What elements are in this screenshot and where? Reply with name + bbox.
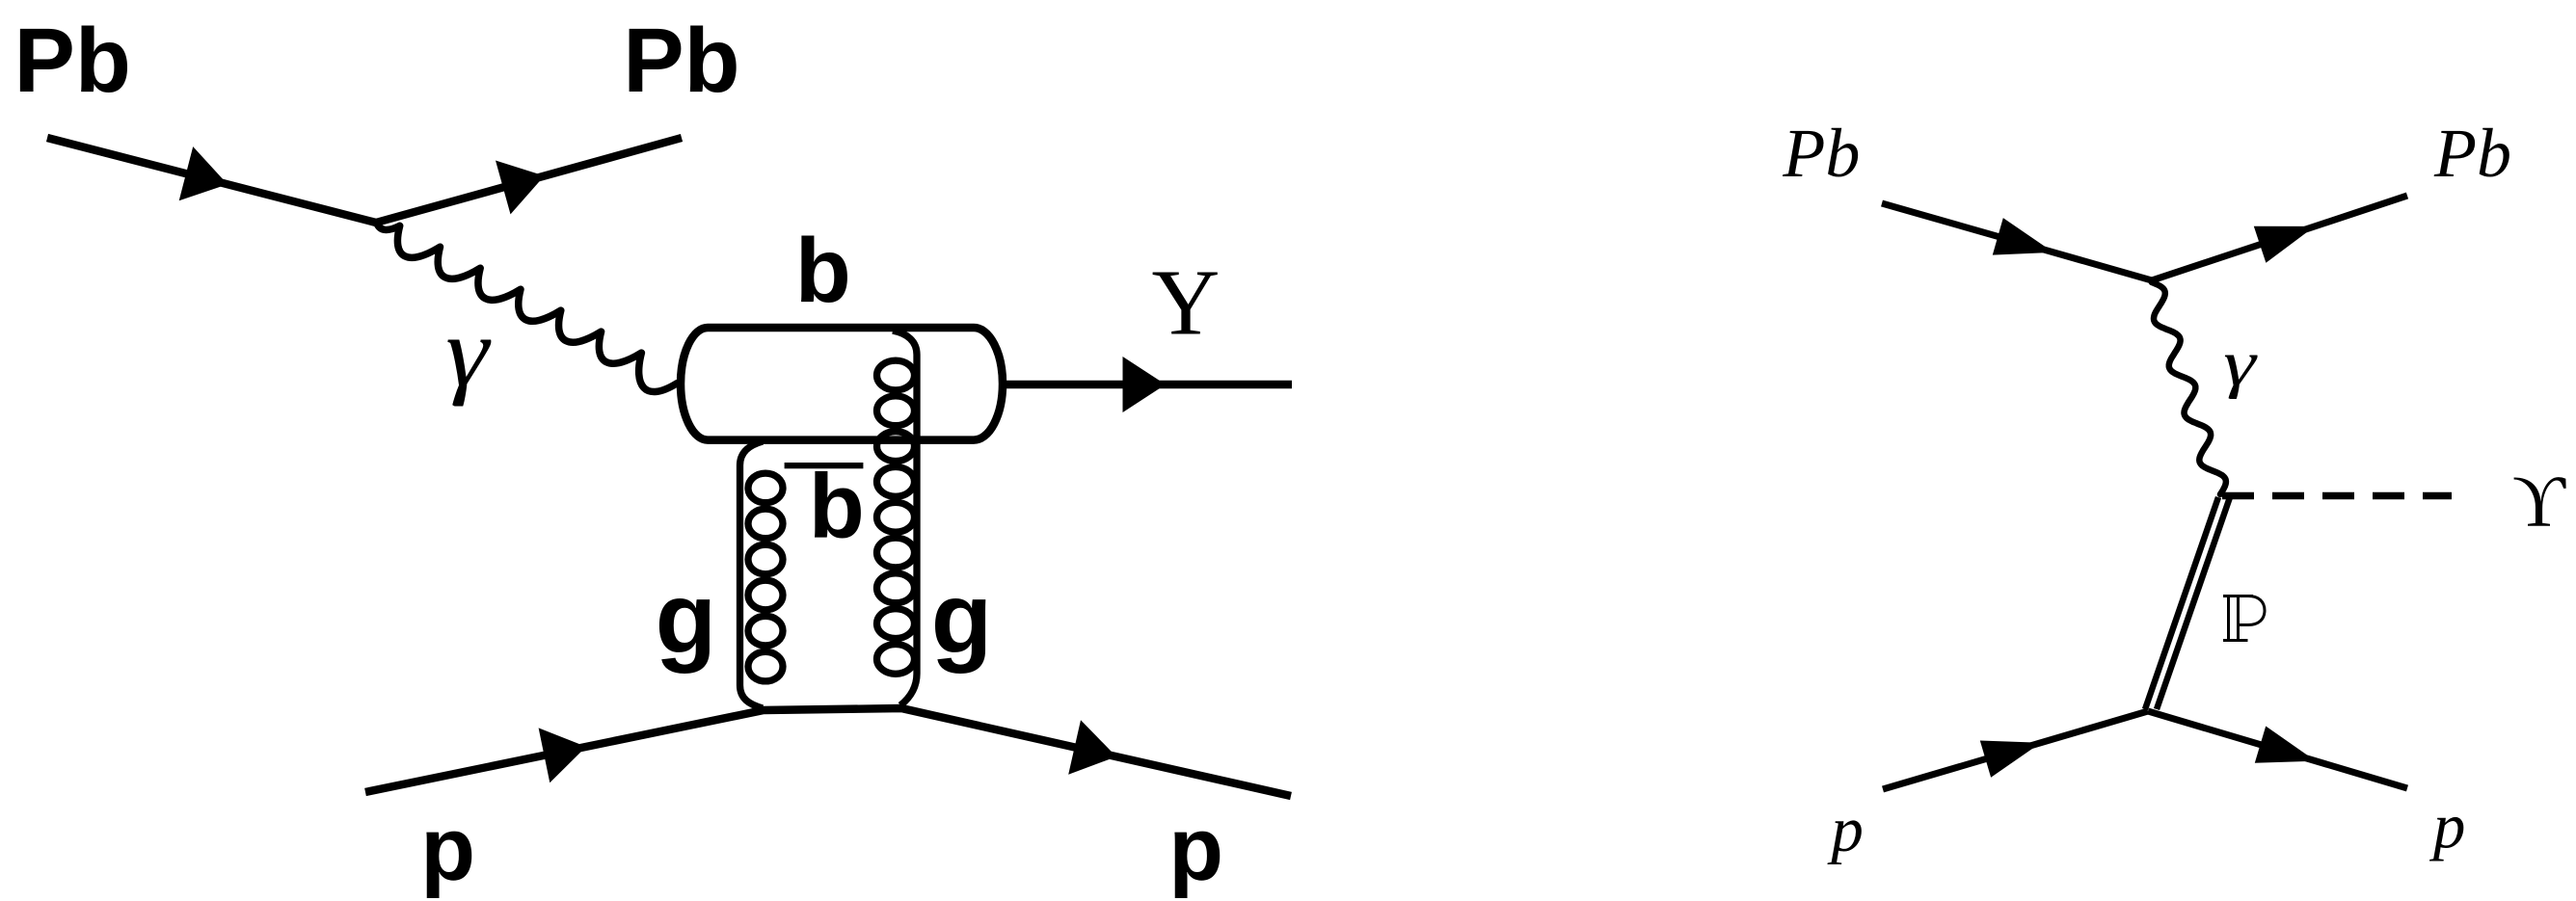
right diagram: arrow on outgoing Pb line [2254, 226, 2315, 263]
svg-text:ϒ: ϒ [2512, 462, 2566, 543]
right diagram: arrow on incoming proton line [1980, 741, 2041, 778]
left diagram: arrow on outgoing proton line [1068, 720, 1116, 775]
left diagram: arrow on outgoing Pb line [496, 161, 545, 215]
right diagram: arrow on outgoing proton line [2255, 727, 2316, 763]
svg-text:γ: γ [445, 299, 492, 408]
left diagram: incoming Pb beam line [47, 138, 376, 223]
right diagram: pomeron double line [2145, 497, 2230, 709]
right diagram: incoming proton line [1883, 711, 2148, 789]
left diagram: arrow on incoming proton line [539, 728, 586, 782]
right diagram: dashed Upsilon line [2222, 492, 2452, 499]
right diagram: arrow on incoming Pb line [1993, 218, 2053, 255]
right diagram: outgoing proton line [2148, 711, 2407, 788]
svg-text:p: p [1827, 794, 1864, 865]
svg-text:b: b [795, 220, 851, 322]
left diagram: gluon g1 coil (left) [740, 441, 784, 708]
left diagram: outgoing Upsilon(Y) line [1003, 381, 1292, 388]
svg-text:Y: Y [1152, 251, 1221, 355]
left diagram: outgoing Pb beam line [376, 138, 682, 223]
svg-text:Pb: Pb [14, 10, 131, 112]
svg-text:Pb: Pb [1782, 115, 1860, 192]
left diagram: b-bbar quark loop capsule (Upsilon blob) [681, 328, 1003, 440]
left diagram: bbar quark label with overbar [785, 456, 865, 558]
svg-text:b: b [809, 456, 865, 558]
right diagram: incoming Pb line [1882, 203, 2152, 280]
svg-text:p: p [420, 799, 475, 899]
svg-text:Pb: Pb [2433, 115, 2511, 192]
svg-text:p: p [1168, 799, 1223, 899]
left diagram: arrow on Y line [1123, 357, 1167, 412]
right diagram: pomeron label double-struck P [2223, 596, 2265, 641]
left diagram: arrow on incoming Pb line [179, 146, 228, 200]
svg-text:γ: γ [2223, 327, 2258, 400]
right diagram: photon wavy line gamma [2152, 282, 2226, 494]
svg-text:g: g [656, 563, 717, 675]
left diagram: photon wavy line gamma [377, 224, 677, 392]
svg-text:Pb: Pb [623, 10, 739, 112]
right diagram: outgoing Pb line [2152, 196, 2407, 280]
svg-text:g: g [931, 563, 993, 675]
svg-text:p: p [2429, 790, 2466, 861]
left diagram: proton line [365, 708, 1291, 796]
left diagram: gluon g2 coil (right) [877, 331, 918, 705]
